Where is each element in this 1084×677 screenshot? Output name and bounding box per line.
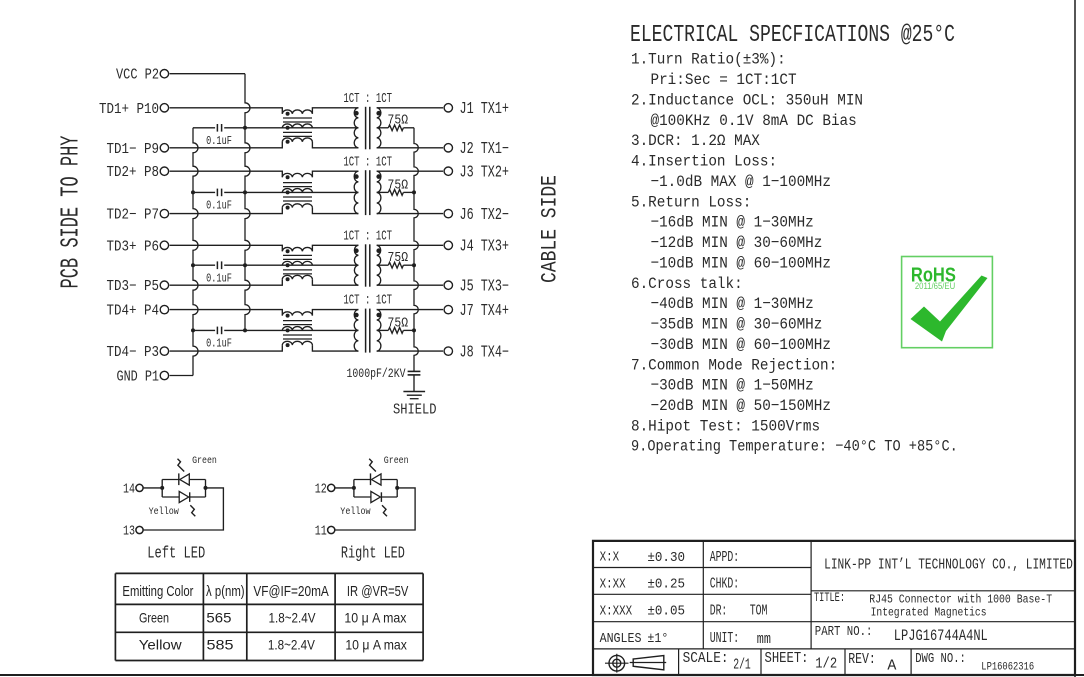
svg-text:LINK-PP INT’L TECHNOLOGY CO.,: LINK-PP INT’L TECHNOLOGY CO., LIMITED [824, 556, 1073, 573]
svg-text:Yellow: Yellow [149, 506, 179, 518]
svg-text:J7 TX4+: J7 TX4+ [460, 303, 510, 321]
svg-text:2/1: 2/1 [733, 656, 751, 673]
svg-text:−35dB MIN @ 30−60MHz: −35dB MIN @ 30−60MHz [651, 315, 823, 334]
svg-text:−16dB MIN @ 1−30MHz: −16dB MIN @ 1−30MHz [651, 213, 814, 232]
svg-text:75Ω: 75Ω [388, 112, 409, 128]
svg-text:TD1− P9: TD1− P9 [107, 142, 160, 158]
svg-text:Right LED: Right LED [341, 545, 405, 563]
svg-text:−20dB MIN @ 50−150MHz: −20dB MIN @ 50−150MHz [651, 396, 831, 415]
svg-text:5.Return Loss:: 5.Return Loss: [631, 193, 751, 212]
svg-text:TITLE:: TITLE: [814, 590, 845, 605]
svg-text:J4 TX3+: J4 TX3+ [460, 238, 510, 256]
svg-text:CABLE SIDE: CABLE SIDE [538, 175, 563, 283]
svg-text:10 μ A max: 10 μ A max [344, 610, 406, 626]
svg-text:λ p(nm): λ p(nm) [206, 583, 245, 600]
svg-text:REV:: REV: [848, 651, 876, 668]
svg-text:APPD:: APPD: [710, 549, 739, 566]
svg-text:ANGLES: ANGLES [600, 631, 642, 646]
svg-text:RJ45 Connector with 1000 Base-: RJ45 Connector with 1000 Base-T [869, 594, 1052, 607]
svg-text:Yellow: Yellow [139, 637, 183, 653]
svg-text:±0.30: ±0.30 [647, 549, 685, 565]
svg-text:J8 TX4−: J8 TX4− [460, 344, 510, 362]
svg-text:Pri:Sec = 1CT:1CT: Pri:Sec = 1CT:1CT [651, 70, 797, 89]
svg-text:14: 14 [123, 481, 135, 497]
svg-text:0.1uF: 0.1uF [206, 271, 232, 285]
svg-text:TD4− P3: TD4− P3 [107, 345, 160, 361]
svg-text:TD2+ P8: TD2+ P8 [107, 165, 160, 181]
svg-text:±0.05: ±0.05 [647, 603, 685, 619]
svg-text:11: 11 [315, 523, 327, 539]
svg-text:IR @VR=5V: IR @VR=5V [347, 583, 408, 600]
svg-text:J6 TX2−: J6 TX2− [460, 207, 510, 225]
svg-text:Integrated Magnetics: Integrated Magnetics [871, 607, 987, 620]
svg-text:−30dB MIN @ 60−100MHz: −30dB MIN @ 60−100MHz [651, 335, 831, 354]
svg-text:−30dB MIN @ 1−50MHz: −30dB MIN @ 1−50MHz [651, 376, 814, 395]
svg-text:J3 TX2+: J3 TX2+ [460, 164, 510, 182]
svg-text:UNIT:: UNIT: [710, 630, 739, 647]
svg-text:@100KHz 0.1V 8mA DC Bias: @100KHz 0.1V 8mA DC Bias [651, 111, 857, 130]
svg-text:DR:: DR: [710, 602, 728, 619]
svg-text:X:XXX: X:XXX [600, 603, 633, 618]
svg-text:1.8~2.4V: 1.8~2.4V [268, 637, 316, 653]
svg-text:J1 TX1+: J1 TX1+ [460, 101, 510, 119]
svg-text:SHIELD: SHIELD [393, 403, 437, 419]
svg-text:75Ω: 75Ω [388, 177, 409, 193]
svg-text:75Ω: 75Ω [388, 250, 409, 266]
svg-text:PCB SIDE TO PHY: PCB SIDE TO PHY [56, 136, 85, 289]
svg-text:1CT : 1CT: 1CT : 1CT [343, 228, 392, 244]
svg-text:J5 TX3−: J5 TX3− [460, 278, 510, 296]
svg-text:X:X: X:X [600, 550, 620, 565]
svg-text:8.Hipot Test: 1500Vrms: 8.Hipot Test: 1500Vrms [631, 417, 820, 436]
svg-text:−12dB MIN @ 30−60MHz: −12dB MIN @ 30−60MHz [651, 233, 823, 252]
svg-text:TOM: TOM [750, 602, 768, 619]
svg-text:X:XX: X:XX [600, 576, 626, 591]
svg-text:VCC P2: VCC P2 [116, 68, 159, 84]
svg-text:0.1uF: 0.1uF [206, 198, 232, 212]
svg-text:Left LED: Left LED [147, 545, 205, 563]
svg-text:TD4+ P4: TD4+ P4 [107, 304, 160, 320]
svg-text:TD3− P5: TD3− P5 [107, 279, 160, 295]
svg-text:LPJG16744A4NL: LPJG16744A4NL [894, 626, 988, 645]
svg-text:TD3+ P6: TD3+ P6 [107, 239, 160, 255]
svg-text:9.Operating Temperature: −40°C: 9.Operating Temperature: −40°C TO +85°C. [631, 437, 958, 456]
svg-text:4.Insertion Loss:: 4.Insertion Loss: [631, 152, 777, 171]
svg-text:A: A [887, 658, 897, 675]
svg-text:CHKD:: CHKD: [710, 575, 739, 592]
svg-text:LP16062316: LP16062316 [981, 661, 1034, 674]
svg-text:mm: mm [757, 631, 771, 648]
svg-text:6.Cross talk:: 6.Cross talk: [631, 274, 743, 293]
svg-text:1/2: 1/2 [815, 655, 837, 672]
svg-text:565: 565 [206, 610, 231, 626]
svg-text:−40dB MIN @ 1−30MHz: −40dB MIN @ 1−30MHz [651, 294, 814, 313]
svg-text:1CT : 1CT: 1CT : 1CT [343, 292, 392, 308]
svg-text:12: 12 [315, 481, 327, 497]
svg-text:±1°: ±1° [647, 630, 668, 646]
svg-text:7.Common Mode Rejection:: 7.Common Mode Rejection: [631, 356, 837, 375]
svg-text:DWG NO.:: DWG NO.: [915, 651, 966, 666]
svg-text:PART NO.:: PART NO.: [815, 624, 873, 639]
svg-text:SHEET:: SHEET: [765, 650, 809, 667]
svg-text:585: 585 [207, 637, 234, 653]
svg-text:GND P1: GND P1 [117, 370, 160, 386]
svg-text:Green: Green [139, 610, 169, 626]
svg-text:2011/65/EU: 2011/65/EU [915, 281, 955, 291]
svg-text:VF@IF=20mA: VF@IF=20mA [253, 583, 328, 600]
svg-text:1.Turn Ratio(±3%):: 1.Turn Ratio(±3%): [631, 50, 786, 69]
svg-text:−1.0dB MAX @ 1−100MHz: −1.0dB MAX @ 1−100MHz [651, 172, 831, 191]
svg-text:TD2− P7: TD2− P7 [107, 208, 160, 224]
svg-text:TD1+ P10: TD1+ P10 [99, 102, 159, 118]
svg-text:±0.25: ±0.25 [647, 576, 685, 592]
svg-text:2.Inductance OCL: 350uH MIN: 2.Inductance OCL: 350uH MIN [631, 91, 863, 110]
svg-text:SCALE:: SCALE: [683, 650, 729, 667]
svg-text:−10dB MIN @ 60−100MHz: −10dB MIN @ 60−100MHz [651, 254, 831, 273]
svg-text:Emitting Color: Emitting Color [122, 583, 193, 600]
svg-text:1CT : 1CT: 1CT : 1CT [343, 154, 392, 170]
svg-text:Yellow: Yellow [340, 506, 370, 518]
svg-text:J2 TX1−: J2 TX1− [460, 141, 510, 159]
svg-text:0.1uF: 0.1uF [206, 134, 232, 148]
svg-text:3.DCR: 1.2Ω MAX: 3.DCR: 1.2Ω MAX [631, 131, 760, 150]
svg-text:10 μ A max: 10 μ A max [345, 637, 407, 653]
svg-text:1000pF/2KV: 1000pF/2KV [347, 367, 406, 381]
svg-text:ELECTRICAL SPECFICATIONS @25°C: ELECTRICAL SPECFICATIONS @25°C [630, 22, 955, 49]
svg-text:75Ω: 75Ω [388, 315, 409, 331]
svg-text:1CT : 1CT: 1CT : 1CT [343, 90, 392, 106]
svg-text:0.1uF: 0.1uF [206, 336, 232, 350]
svg-text:Green: Green [192, 455, 217, 467]
svg-text:1.8~2.4V: 1.8~2.4V [269, 610, 317, 626]
svg-text:13: 13 [123, 523, 135, 539]
svg-text:Green: Green [384, 455, 409, 467]
